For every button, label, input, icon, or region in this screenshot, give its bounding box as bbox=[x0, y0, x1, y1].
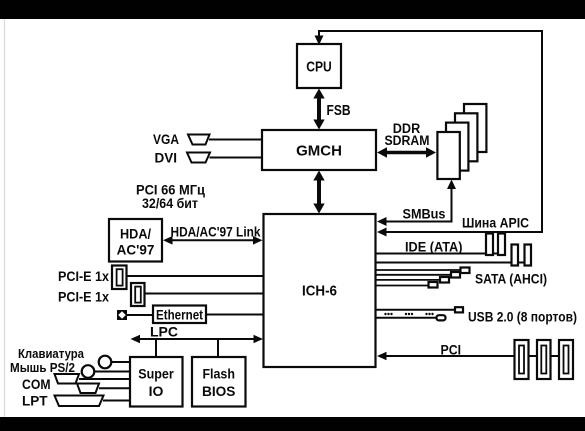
svg-text:GMCH: GMCH bbox=[296, 143, 342, 160]
svg-text:HDA/AC'97 Link: HDA/AC'97 Link bbox=[171, 225, 261, 240]
svg-text:Клавиатура: Клавиатура bbox=[18, 346, 85, 361]
svg-text:LPT: LPT bbox=[22, 394, 48, 409]
svg-text:FSB: FSB bbox=[327, 103, 351, 119]
svg-text:Шина APIC: Шина APIC bbox=[462, 215, 529, 231]
svg-text:SMBus: SMBus bbox=[403, 207, 446, 222]
svg-text:VGA: VGA bbox=[153, 132, 179, 147]
svg-text:USB 2.0 (8 портов): USB 2.0 (8 портов) bbox=[468, 310, 577, 325]
svg-text:Flash: Flash bbox=[202, 366, 235, 382]
svg-text:IDE (ATA): IDE (ATA) bbox=[405, 240, 463, 255]
svg-text:ICH-6: ICH-6 bbox=[302, 284, 337, 300]
svg-text:Super: Super bbox=[138, 366, 174, 382]
svg-text:Ethernet: Ethernet bbox=[156, 308, 203, 323]
svg-text:Мышь PS/2: Мышь PS/2 bbox=[10, 360, 75, 375]
svg-text:DVI: DVI bbox=[155, 151, 178, 166]
svg-text:BIOS: BIOS bbox=[202, 383, 236, 399]
svg-text:SDRAM: SDRAM bbox=[385, 133, 430, 148]
svg-text:AC'97: AC'97 bbox=[117, 243, 155, 258]
svg-text:IO: IO bbox=[149, 383, 164, 399]
svg-text:COM: COM bbox=[22, 377, 51, 392]
svg-text:32/64 бит: 32/64 бит bbox=[142, 196, 198, 211]
svg-text:PCI-E 1x: PCI-E 1x bbox=[58, 269, 109, 284]
svg-text:SATA (AHCI): SATA (AHCI) bbox=[475, 272, 547, 287]
svg-text:LPC: LPC bbox=[150, 324, 178, 340]
svg-text:HDA/: HDA/ bbox=[120, 227, 151, 242]
svg-text:PCI-E 1x: PCI-E 1x bbox=[58, 290, 109, 305]
svg-text:CPU: CPU bbox=[306, 59, 332, 76]
